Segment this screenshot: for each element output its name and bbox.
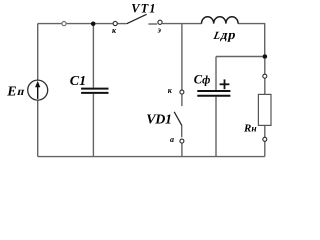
svg-text:VТ1: VТ1 <box>131 1 156 15</box>
svg-text:С1: С1 <box>70 74 86 89</box>
svg-text:э: э <box>157 26 162 35</box>
svg-text:др: др <box>220 27 239 42</box>
svg-text:VD1: VD1 <box>146 112 171 127</box>
svg-text:Сф: Сф <box>194 73 211 87</box>
svg-text:а: а <box>170 135 174 144</box>
svg-text:Rн: Rн <box>243 123 257 135</box>
svg-text:Е: Е <box>6 84 16 99</box>
